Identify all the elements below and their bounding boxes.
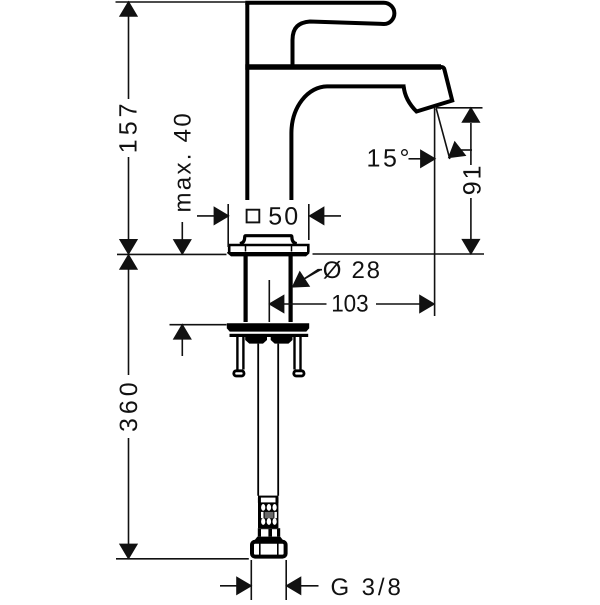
- base dome: [240, 236, 297, 244]
- svg-text:Ø 28: Ø 28: [323, 257, 382, 284]
- supply pipe: [258, 344, 278, 496]
- faucet spout: [291, 67, 452, 200]
- dim 103 line: [284, 303, 421, 305]
- svg-text:15°: 15°: [367, 145, 413, 173]
- svg-text:91: 91: [459, 163, 487, 195]
- centerline: [268, 280, 270, 322]
- clamp band: [230, 334, 309, 337]
- base plate: [229, 245, 308, 252]
- faucet lever handle: [247, 3, 394, 66]
- svg-text:103: 103: [331, 290, 369, 317]
- dim 360 line: [128, 269, 130, 545]
- dim 360 extension bottom: [116, 558, 249, 560]
- clamp nut left: [245, 337, 267, 344]
- dim G3/8 extensions: [251, 560, 286, 600]
- faucet body left edge: [245, 2, 249, 201]
- svg-text:G 3/8: G 3/8: [331, 574, 404, 600]
- spout vertical extension: [434, 108, 436, 317]
- dim sq50 lines: [197, 215, 341, 217]
- flex connector: [258, 496, 278, 498]
- stud right: [295, 337, 301, 370]
- faucet body top line: [245, 64, 441, 70]
- mounting flange: [227, 323, 309, 331]
- label sq50 square symbol: [247, 210, 260, 223]
- dim 91 line: [470, 123, 472, 240]
- svg-text:max. 40: max. 40: [170, 111, 197, 212]
- dim sq50 extensions: [228, 204, 309, 247]
- dim max40 arrow up: [181, 339, 183, 356]
- dim max40 extension: [170, 324, 227, 326]
- svg-text:157: 157: [114, 99, 142, 153]
- dim max40 arrow down: [181, 222, 183, 240]
- dim 157 line: [128, 15, 130, 241]
- dim 15deg slant line: [436, 109, 450, 160]
- svg-text:50: 50: [268, 202, 300, 230]
- clamp nut right: [271, 337, 293, 344]
- svg-text:360: 360: [115, 378, 143, 432]
- outlet extension line: [436, 107, 483, 109]
- shank: [244, 256, 248, 322]
- dim 15deg arrow slant: [459, 149, 473, 151]
- mounting surface extension left: [117, 253, 227, 255]
- dim G3/8 lines: [220, 585, 319, 587]
- leader dia28: [295, 270, 322, 285]
- hex nut G3/8: [252, 542, 286, 557]
- dim 157 extension top: [116, 1, 247, 3]
- mounting surface extension right: [313, 253, 485, 255]
- stud left: [237, 337, 243, 370]
- dim 15deg arrow right: [409, 158, 422, 160]
